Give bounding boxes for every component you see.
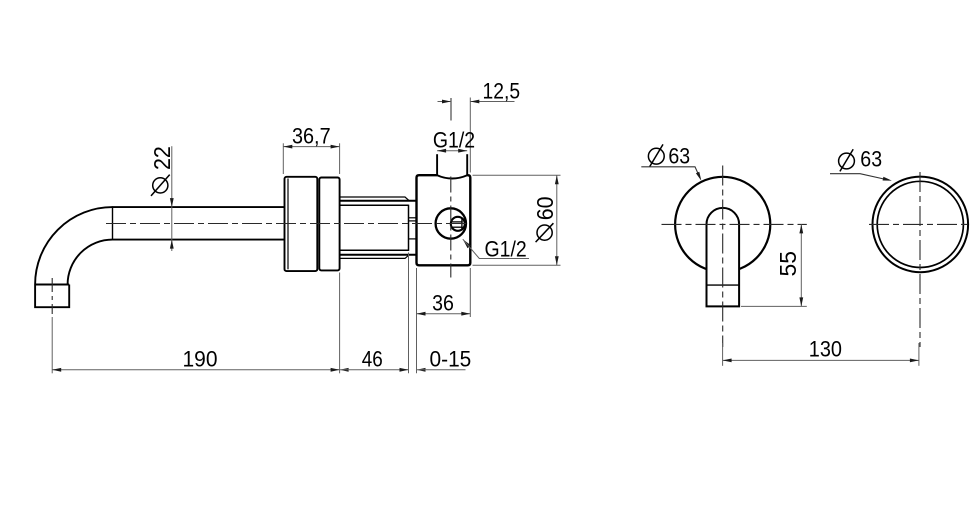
dimension 12,5 right arrow [470,100,479,104]
dimension 36,7 right arrow [331,145,340,149]
shank end extension line for 46 [408,253,410,374]
dimension 130 left arrow [723,359,732,363]
dimension 12,5 left tail [438,101,452,103]
dimension D60 top extension line [473,174,561,176]
spout bend inner arc [68,240,113,285]
dimension 0-15 right arrow [417,368,426,372]
thread root top line [340,200,417,202]
svg-text:190: 190 [183,346,218,371]
flange front view inner circle [877,181,963,267]
dimension 36 left arrow [417,312,426,316]
flange front view outer circle [873,177,969,273]
dimension 12,5 left arrow [442,100,451,104]
dimension 36,7 left extension line [282,143,284,174]
main horizontal centerline [106,223,470,225]
dimension 36 left extension line [416,268,418,373]
dimension 12,5 right tail [470,101,514,103]
spout straight tube bottom line [113,239,285,241]
dimension D60 top arrow [555,175,559,184]
svg-text:36: 36 [432,290,454,315]
dimension 12,5 right extension line [469,98,471,173]
spout tip parting line [35,284,69,286]
dimension 36 right extension line [469,268,471,317]
svg-text:130: 130 [809,336,842,361]
dimension D60 bottom extension line [473,264,561,266]
handle front view circle [675,177,770,272]
svg-text:G1/2: G1/2 [433,128,475,153]
dimension 12,5 centre tick [450,98,452,121]
dimension 36 line [417,313,471,315]
handle horizontal centerline [662,223,807,225]
connector nipple line 3 [409,238,417,240]
spout straight tube top line [113,206,285,208]
D63 label left: diameter symbol [648,148,664,164]
handle lever parting line [707,284,740,286]
dimension G1/2 top left arrow [437,149,446,153]
dimension 55 bottom arrow [799,297,803,306]
body vertical centerline [450,177,452,278]
valve body top concave arc [437,175,467,178]
svg-text:36,7: 36,7 [292,123,331,148]
dimension 130 right arrow [910,359,919,363]
valve body outline [417,175,471,265]
dimension 55 line [800,224,802,306]
dimension G1/2 top line [437,150,467,152]
thread crest bottom line with chamfer [340,255,409,259]
outlet inner detail bottom line [452,226,463,228]
dimension 36,7 right extension line [339,143,341,174]
shank bore bottom line [340,249,409,251]
inlet port stub right line [466,154,468,175]
connector nipple line 1 [409,217,417,219]
dimension D60 line [556,175,558,265]
shank bore top line [340,204,409,206]
dimension 55 bottom extension line [741,305,807,307]
spout tip aerator box [35,285,69,308]
dimension 46 line [340,369,409,371]
dimension 36 right arrow [461,312,470,316]
svg-text:46: 46 [362,346,383,371]
dimension D22 bottom arrow [170,240,174,249]
outlet small circle [451,217,465,231]
handle lever body [707,208,740,306]
svg-text:55: 55 [775,251,801,277]
svg-text:0-15: 0-15 [430,347,472,372]
outlet inner detail top line [452,221,463,223]
thread root bottom line [340,254,417,256]
thread crest top line with chamfer [340,197,409,201]
dimension 190 right arrow [331,368,340,372]
spout tip vertical centerline [51,278,53,314]
dimension 190 line [52,369,339,371]
diameter symbol for D60 [537,225,552,240]
dimension 46 left arrow [340,368,349,372]
dimension G1/2 top right arrow [458,149,467,153]
dimension 130 line [723,359,919,361]
dimension 130 left extension line [722,343,724,366]
D63 label right leader arrow [883,177,892,181]
dimension 130 right extension line [918,343,920,366]
dimension 55 top arrow [799,224,803,233]
diameter symbol for D22 [153,178,168,193]
dimension 46 right arrow [400,368,409,372]
D63 label left leader arrow [696,172,701,181]
handle vertical centerline [722,166,724,348]
svg-text:12,5: 12,5 [483,78,521,103]
flange horizontal centerline [869,223,971,225]
D63 label right leader [830,174,889,180]
dimension D60 bottom arrow [555,256,559,265]
tip extension line for 190 [51,317,53,373]
D63 label left leader [641,167,700,179]
dimension 190 left arrow [52,368,61,372]
svg-text:60: 60 [532,197,558,221]
dimension 0-15 tail [417,369,466,371]
connector nipple line 2 [409,220,417,222]
spout bend tangent tick [112,206,114,240]
flange extension line for 190/46 [339,273,341,374]
outlet inner detail vertical line [461,218,463,231]
svg-text:63: 63 [860,146,882,171]
flange vertical centerline [919,172,921,347]
dimension 36,7 line [283,146,339,148]
svg-text:G1/2: G1/2 [485,236,527,261]
spout bend outer arc [35,207,112,284]
dimension D22 top arrow [170,198,174,207]
dimension D22 line through tube [171,146,173,251]
outlet big circle [436,208,466,238]
svg-text:63: 63 [668,143,690,168]
D63 label right: diameter symbol [839,153,855,169]
flange disc 2 [319,178,339,271]
flange disc 1 [285,177,318,271]
dimension 36,7 left arrow [283,145,292,149]
shank end cap line [408,205,410,251]
flange disc 1 face line [287,179,289,270]
inlet port stub left line [436,154,438,175]
outlet G1/2 leader line [463,239,529,258]
outlet G1/2 leader arrow [463,239,471,248]
svg-text:22: 22 [149,146,175,170]
